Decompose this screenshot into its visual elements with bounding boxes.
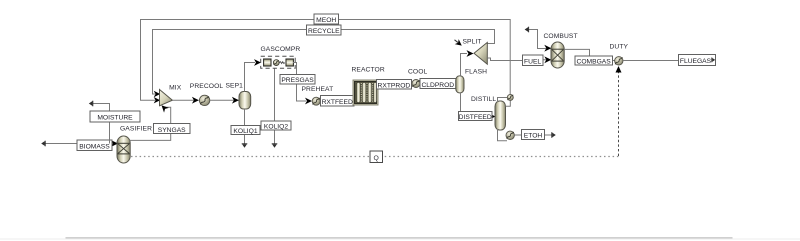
stream label MEOH — [314, 14, 339, 24]
heat stream label Q — [370, 151, 383, 163]
heater PREHEAT — [312, 97, 320, 105]
stream label SYNGAS — [154, 124, 191, 134]
stream label RXTPROD — [376, 80, 411, 90]
svg-text:REACTOR: REACTOR — [352, 67, 385, 74]
svg-text:RXTPROD: RXTPROD — [378, 83, 411, 90]
stream label MOISTURE — [90, 111, 140, 122]
stream label RECYCLE — [307, 25, 342, 35]
wire FLASH vapor to SPLIT — [461, 50, 474, 76]
heater DUTY — [615, 57, 623, 65]
svg-text:KOLIQ1: KOLIQ1 — [233, 128, 257, 135]
stream label KOLIQ1 — [231, 126, 260, 136]
wire FLUEGAS out — [623, 60, 678, 62]
svg-text:MOISTURE: MOISTURE — [97, 115, 133, 122]
svg-text:ETOH: ETOH — [524, 132, 543, 139]
wire KOLIQ2 liquid out of compressor train — [272, 68, 278, 148]
wire MIX to PRECOOL — [172, 97, 199, 104]
cooler COOL — [412, 80, 420, 88]
wire SEP1 vapor to GASCOMPR — [245, 59, 262, 91]
svg-text:RXTFEED: RXTFEED — [322, 99, 353, 106]
wire Q heat stream gasifier to duty (dotted) — [131, 66, 622, 157]
mixer MIX — [160, 90, 173, 106]
stream label ETOH — [521, 129, 544, 139]
svg-text:DUTY: DUTY — [610, 43, 629, 50]
svg-text:RECYCLE: RECYCLE — [308, 28, 340, 35]
svg-text:SEP1: SEP1 — [226, 83, 244, 90]
wire SPLIT to FUEL to COMBUST — [487, 56, 551, 63]
splitter SPLIT — [474, 42, 487, 64]
heater PRECOOL — [199, 95, 209, 105]
svg-text:MEOH: MEOH — [316, 17, 336, 24]
svg-text:KOLIQ2: KOLIQ2 — [264, 124, 288, 131]
reactor vessel GASIFIER — [117, 136, 130, 163]
svg-text:SYNGAS: SYNGAS — [158, 127, 186, 134]
svg-text:CLDPROD: CLDPROD — [421, 82, 454, 89]
wire BIOMASS feed line — [41, 140, 118, 147]
wire FLASH liquid to DISTFEED — [461, 93, 496, 119]
wire COMBGAS combustor to duty heater — [564, 49, 614, 60]
svg-text:FLUEGAS: FLUEGAS — [680, 58, 712, 65]
svg-text:BIOMASS: BIOMASS — [79, 144, 110, 151]
wire PRECOOL to SEP1 — [210, 97, 239, 104]
svg-text:COMBUST: COMBUST — [544, 33, 578, 40]
svg-text:PREHEAT: PREHEAT — [302, 86, 334, 93]
wire MEOH recycle loop (distillate back to mixer) — [141, 20, 511, 104]
svg-text:PRESGAS: PRESGAS — [281, 77, 314, 84]
wire SYNGAS line gasifier to mixer — [130, 103, 171, 141]
stream label FLUEGAS — [678, 54, 715, 65]
loose vent arrow near SPLIT — [455, 40, 459, 43]
svg-text:COMBGAS: COMBGAS — [577, 59, 612, 66]
wire AIR feed into COMBUST — [525, 27, 552, 52]
svg-text:GASIFIER: GASIFIER — [120, 125, 152, 132]
stream label BIOMASS — [77, 140, 112, 151]
flash drum FLASH — [456, 76, 464, 93]
stream label COMBGAS — [575, 56, 613, 66]
combustor vessel COMBUST — [551, 42, 564, 68]
svg-text:DISTILL: DISTILL — [471, 96, 496, 103]
flash drum SEP1 — [239, 92, 251, 110]
svg-text:FUEL: FUEL — [524, 59, 541, 66]
svg-text:SPLIT: SPLIT — [463, 39, 482, 46]
stream label CLDPROD — [420, 79, 456, 89]
wire KOLIQ1 liquid out — [242, 109, 248, 148]
stream label KOLIQ2 — [261, 121, 291, 131]
stream label PRESGAS — [280, 74, 315, 84]
window border line at bottom — [0, 238, 800, 240]
plug flow reactor REACTOR — [353, 80, 378, 105]
svg-text:COOL: COOL — [408, 69, 428, 76]
svg-text:GASCOMPR: GASCOMPR — [261, 46, 301, 53]
svg-text:PRECOOL: PRECOOL — [190, 83, 224, 90]
wire RECYCLE loop (split top back to mixer) — [153, 30, 495, 98]
svg-text:MIX: MIX — [169, 84, 182, 91]
stream label FUEL — [523, 55, 543, 65]
svg-text:Q: Q — [374, 155, 379, 162]
multistage compressor GASCOMPR — [261, 56, 296, 68]
stream label RXTFEED — [321, 96, 355, 107]
svg-text:FLASH: FLASH — [465, 69, 487, 76]
wire PRESGAS compressor to preheater — [293, 63, 312, 105]
wire MOISTURE product line — [89, 101, 110, 144]
svg-text:DISTFEED: DISTFEED — [459, 114, 492, 121]
stream label DISTFEED — [459, 111, 492, 121]
distillation column DISTILL — [495, 94, 514, 140]
wire ETOH bottoms product — [514, 132, 555, 138]
